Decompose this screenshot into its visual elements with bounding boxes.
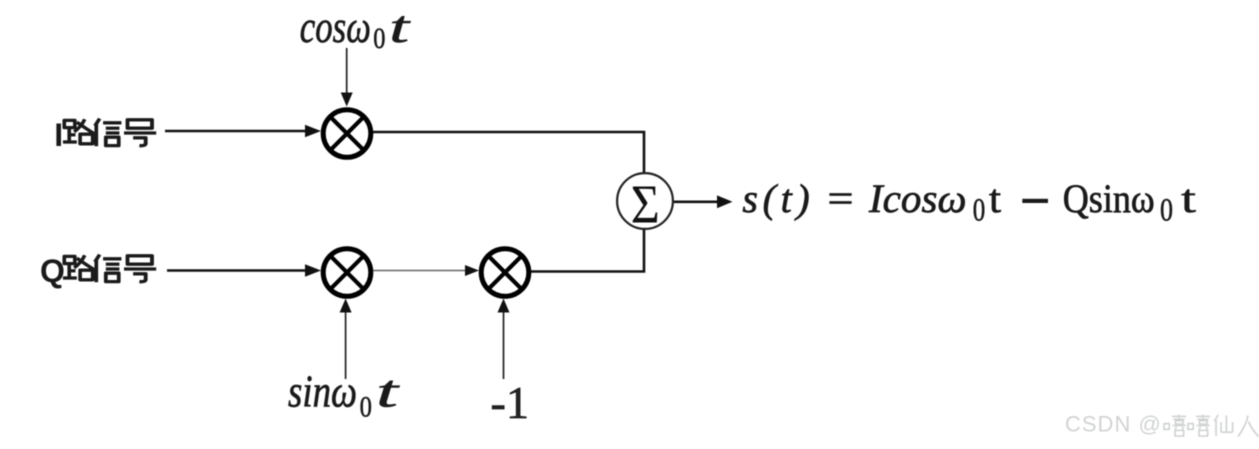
- wire summer output arrow: [674, 195, 733, 208]
- label Q signal: [40, 253, 156, 289]
- label -1: [491, 377, 530, 428]
- wire -1 arrow into multiplier M3: [498, 299, 510, 380]
- wire Q input arrow: [167, 264, 321, 276]
- label output equation: [742, 176, 1196, 229]
- wire I input arrow: [165, 125, 321, 137]
- svg-text:-1: -1: [491, 377, 530, 428]
- label sinw0t: [288, 367, 401, 424]
- svg-text:0: 0: [973, 193, 986, 229]
- label I signal: [54, 117, 156, 153]
- svg-text:=: =: [828, 176, 854, 221]
- svg-text:t: t: [389, 2, 411, 52]
- svg-text:CSDN @: CSDN @: [1065, 412, 1162, 437]
- wire cos arrow into multiplier M1: [341, 48, 353, 107]
- svg-text:0: 0: [1160, 193, 1173, 229]
- svg-text:I: I: [54, 117, 63, 153]
- wire sin arrow into multiplier M2: [340, 299, 352, 380]
- svg-text:Q: Q: [40, 253, 65, 289]
- summer S1: [617, 173, 673, 234]
- wire M2 to M3 thin arrow: [373, 265, 479, 276]
- multiplier M3: [481, 249, 529, 297]
- svg-text:sinω: sinω: [288, 367, 357, 417]
- multiplier M2: [323, 249, 371, 297]
- svg-text:Qsinω: Qsinω: [1063, 176, 1155, 221]
- svg-text:0: 0: [373, 22, 385, 55]
- svg-text:s(t): s(t): [742, 176, 809, 221]
- svg-text:cosω: cosω: [300, 2, 371, 52]
- multiplier M1: [323, 110, 371, 158]
- svg-text:Σ: Σ: [631, 174, 660, 235]
- svg-text:t: t: [1181, 176, 1196, 221]
- svg-text:t: t: [376, 367, 401, 417]
- svg-text:Icosω: Icosω: [868, 176, 967, 221]
- svg-text:t: t: [989, 176, 1001, 221]
- svg-text:0: 0: [360, 391, 372, 424]
- wire M3 output to summer: [531, 230, 644, 272]
- watermark CSDN: [1065, 412, 1259, 437]
- wire M1 output to summer: [373, 132, 644, 173]
- label cosw0t: [300, 2, 412, 55]
